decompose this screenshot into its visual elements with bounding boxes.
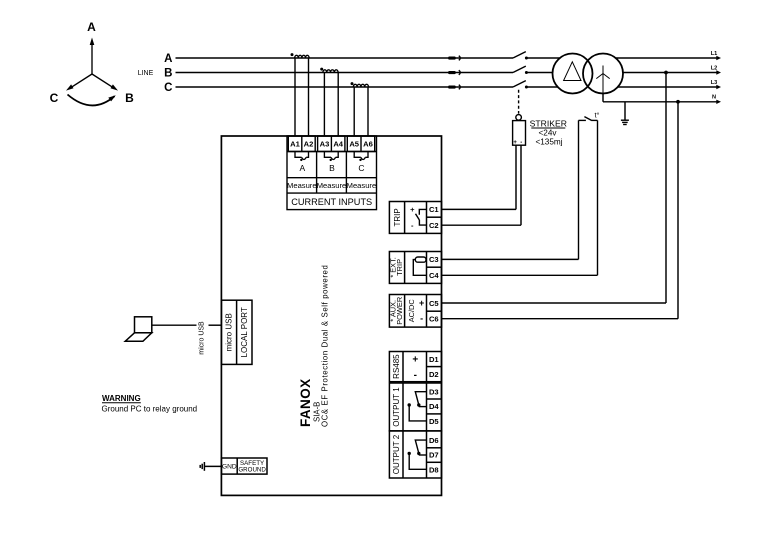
svg-text:C: C (358, 163, 364, 173)
OUTPUT 2 block (389, 431, 441, 478)
wire C6 riser (677, 102, 679, 319)
breaker blade phase B (513, 66, 526, 72)
phasor swing arc (68, 95, 115, 106)
wire C3 (442, 258, 579, 260)
svg-text:GND: GND (222, 464, 237, 471)
transformer secondary circle (wye) (583, 54, 623, 94)
breaker blade phase C (513, 81, 526, 87)
wire PC to micro USB (152, 324, 197, 326)
striker lead - (520, 145, 522, 225)
svg-text:A3: A3 (320, 140, 330, 149)
svg-text:C4: C4 (429, 271, 439, 280)
junction L2 (664, 71, 668, 75)
breaker contact dot C (525, 86, 528, 89)
ground block (221, 458, 267, 474)
svg-text:D8: D8 (429, 465, 439, 474)
CT phase C coil (353, 84, 368, 87)
svg-text:A5: A5 (349, 140, 359, 149)
svg-text:POWER: POWER (395, 297, 404, 325)
svg-text:FANOX: FANOX (298, 378, 313, 427)
svg-text:C: C (164, 82, 172, 94)
AUX POWER block (389, 295, 441, 328)
fuse phase B (448, 71, 456, 74)
striker dome (516, 115, 522, 121)
wire safety ground (204, 465, 221, 467)
svg-text:B: B (329, 163, 335, 173)
chevron phase A (459, 56, 461, 61)
svg-text:-: - (414, 370, 417, 381)
transformer primary circle (delta) (553, 54, 593, 94)
earth ground symbol (621, 120, 629, 124)
svg-text:Measure: Measure (287, 181, 317, 190)
junction N (676, 100, 680, 104)
arrow N (716, 100, 721, 104)
svg-text:t°: t° (594, 111, 599, 120)
wire C5 riser (665, 73, 667, 304)
svg-text:OUTPUT 1: OUTPUT 1 (392, 387, 401, 427)
chevron phase C (459, 85, 461, 90)
svg-text:-: - (520, 140, 522, 146)
breaker contact dot B (525, 71, 528, 74)
wire C4 (442, 274, 598, 276)
fuse phase C (448, 86, 456, 89)
wire C2 (442, 224, 522, 226)
svg-text:A4: A4 (333, 140, 343, 149)
svg-text:A6: A6 (363, 140, 373, 149)
output1 contact (409, 392, 426, 421)
svg-text:LINE: LINE (138, 70, 154, 77)
phasor vector B (92, 74, 114, 88)
svg-text:OUTPUT 2: OUTPUT 2 (392, 434, 401, 474)
svg-text:D2: D2 (429, 370, 439, 379)
trip contact (416, 209, 427, 225)
wire phase B (176, 72, 514, 74)
svg-text:B: B (125, 91, 134, 105)
svg-text:D1: D1 (429, 355, 439, 364)
arrow L1 (716, 56, 721, 60)
svg-text:LOCAL PORT: LOCAL PORT (240, 307, 249, 357)
terminal pair A5 A6 (347, 136, 374, 152)
svg-text:RS485: RS485 (392, 354, 401, 379)
wye symbol (596, 66, 609, 94)
svg-text:B: B (164, 68, 172, 80)
ext trip coil (413, 257, 426, 275)
svg-text:Ground PC to relay ground: Ground PC to relay ground (102, 404, 198, 413)
CT symbol A (295, 152, 309, 160)
current inputs block (287, 136, 377, 210)
breaker blade phase A (513, 52, 526, 58)
wire N (603, 101, 718, 103)
safety ground symbol (200, 462, 204, 471)
svg-text:WARNING: WARNING (102, 394, 141, 403)
phasor vector C (71, 74, 93, 88)
svg-text:D5: D5 (429, 417, 439, 426)
thermal contact t (579, 119, 586, 121)
relay enclosure (221, 136, 441, 495)
svg-text:C1: C1 (429, 205, 439, 214)
wire C1 (442, 208, 517, 210)
svg-text:C: C (50, 91, 59, 105)
svg-text:A2: A2 (304, 140, 314, 149)
wire phase A (176, 57, 514, 59)
svg-text:micro USB: micro USB (199, 321, 206, 355)
output2 contact (409, 440, 426, 469)
svg-text:C5: C5 (429, 299, 439, 308)
earth branch (624, 102, 626, 120)
CT symbol C (354, 152, 368, 160)
CT phase A leads (294, 58, 296, 136)
svg-text:Measure: Measure (317, 181, 347, 190)
striker body (513, 121, 526, 146)
wire C5 (442, 302, 667, 304)
breaker contact dot A (525, 57, 528, 60)
neutral wire from wye (602, 94, 604, 102)
CT phase C leads (353, 87, 355, 136)
striker lead + (515, 145, 517, 209)
RS485 block (389, 352, 441, 382)
terminal pair A3 A4 (318, 136, 345, 152)
terminal pair A1 A2 (288, 136, 315, 152)
svg-text:A: A (299, 163, 305, 173)
svg-text:CURRENT INPUTS: CURRENT INPUTS (291, 197, 372, 207)
svg-text:C2: C2 (429, 221, 439, 230)
CT C polarity dot (351, 82, 354, 85)
wire C6 (442, 318, 679, 320)
svg-text:-: - (420, 313, 423, 323)
CT A polarity dot (291, 53, 294, 56)
arrow L3 (716, 85, 721, 89)
svg-text:D7: D7 (429, 451, 439, 460)
arrow L2 (716, 70, 721, 74)
svg-text:GROUND: GROUND (238, 467, 266, 474)
svg-text:L2: L2 (711, 66, 718, 72)
EXT TRIP block (389, 252, 441, 284)
CT phase B leads (323, 73, 325, 137)
chevron phase B (459, 70, 461, 75)
phasor vector A (91, 43, 93, 74)
svg-text:TRIP: TRIP (395, 259, 404, 276)
svg-text:A: A (87, 20, 96, 34)
svg-text:A1: A1 (290, 140, 300, 149)
svg-text:<135mj: <135mj (535, 137, 562, 146)
svg-text:+: + (513, 140, 517, 146)
svg-text:+: + (410, 205, 415, 214)
svg-text:C3: C3 (429, 255, 439, 264)
svg-text:L3: L3 (711, 80, 718, 86)
svg-text:+: + (412, 355, 418, 366)
svg-text:Measure: Measure (347, 181, 377, 190)
OUTPUT 1 block (389, 383, 441, 431)
svg-text:<24v: <24v (539, 128, 558, 137)
CT symbol B (324, 152, 338, 160)
svg-text:N: N (712, 95, 716, 101)
svg-text:TRIP: TRIP (393, 208, 402, 226)
svg-text:L1: L1 (711, 51, 718, 57)
svg-text:A: A (164, 53, 172, 65)
fuse phase A (448, 57, 456, 60)
CT phase B coil (323, 70, 338, 73)
svg-text:micro USB: micro USB (225, 313, 234, 351)
thermal contact t leads (579, 117, 598, 276)
svg-text:AC/DC: AC/DC (407, 299, 416, 323)
laptop PC (125, 317, 152, 342)
svg-text:OC& EF Protection Dual & Self: OC& EF Protection Dual & Self powered (321, 265, 330, 427)
local port block (221, 300, 252, 364)
wire phase C (176, 86, 514, 88)
svg-text:C6: C6 (429, 315, 439, 324)
svg-text:D6: D6 (429, 436, 439, 445)
striker mechanical link (dashed) (518, 90, 520, 114)
svg-text:STRIKER: STRIKER (530, 118, 567, 128)
svg-text:D4: D4 (429, 402, 439, 411)
CT phase A coil (295, 55, 309, 58)
CT B polarity dot (320, 68, 323, 71)
svg-text:D3: D3 (429, 387, 439, 396)
delta symbol (564, 62, 581, 81)
svg-text:+: + (419, 298, 424, 308)
TRIP block (389, 202, 441, 234)
